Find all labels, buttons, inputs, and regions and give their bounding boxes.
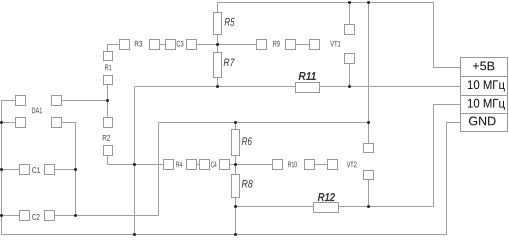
junction R2 stub at mid bus [133,163,136,166]
capacitor C2 pad left [20,211,30,221]
wire R9 to VT1 base [296,44,310,46]
svg-text:R8: R8 [241,179,253,191]
wire R8 top stub [235,165,237,175]
wire R5 R7 link [217,35,219,53]
svg-text:R7: R7 [223,57,235,69]
wire VT2 emitter stub [368,180,370,207]
svg-text:R1: R1 [105,63,112,72]
wire R11 row left [135,86,296,88]
junction C2 at pin3 vertical [74,214,77,217]
junction C1 at pin3 vertical [74,168,77,171]
wire R8 bottom to bottom rail [235,198,237,235]
wire R3 to C3 [160,44,166,46]
resistor R6 body [232,130,240,156]
capacitor C3 pad left [166,40,176,50]
svg-text:VT2: VT2 [347,160,357,169]
svg-text:C3: C3 [176,40,184,49]
transistor VT1 emitter pad [345,54,355,64]
junction VT1 emitter at R11 row [348,85,351,88]
resistor R12 body [314,203,339,213]
transistor VT1 base pad [310,40,320,50]
wire R4 to C4 [197,164,200,166]
wire top +5V rail [218,3,461,68]
IC DA1 pad 3 [52,118,62,128]
svg-text:+5В: +5В [472,59,495,73]
wire R2 bottom to R4 [108,156,164,165]
wire C4 to R10 [230,164,273,166]
capacitor C4 pad right [220,160,230,170]
resistor R8 body [232,175,240,198]
svg-text:R6: R6 [241,136,252,148]
wire DA1 pin2 [2,122,16,124]
wire DA1 pin3 down [62,123,76,216]
junction R6 R8 at R4 row [234,163,237,166]
wire C1 right [55,169,76,171]
resistor R7 body [214,53,222,78]
svg-text:C1: C1 [32,166,41,175]
svg-text:R12: R12 [318,192,335,204]
wire left bus vertical [134,87,136,235]
wire C2 right [55,215,159,217]
wire R6 top stub [235,123,237,130]
resistor R10 pad left [273,160,283,170]
resistor R4 pad left [164,160,174,170]
resistor R3 pad right [150,40,160,50]
wire R10 to VT2 base [315,164,328,166]
svg-text:VT1: VT1 [330,40,341,49]
resistor R9 pad right [286,40,296,50]
wire GND entry [2,123,461,235]
junction long vertical at y122 wire [367,121,370,124]
wire VT1 collector stub [349,3,351,25]
junction C2 at left bus [0,214,3,217]
resistor R10 pad right [305,160,315,170]
svg-text:DA1: DA1 [31,106,42,115]
svg-text:R4: R4 [176,160,183,169]
svg-text:C2: C2 [32,213,40,222]
connector block [461,58,508,132]
junction mid bus at bottom rail [133,233,136,236]
transistor VT2 base pad [328,160,338,170]
wire R12 row right [339,105,461,207]
wire R1 top to R3 row [108,45,120,52]
resistor R4 pad right [187,160,197,170]
junction R6 at y122 wire [234,121,237,124]
junction R1 R2 at DA1 pin4 [106,99,109,102]
resistor R3 pad left [120,40,130,50]
capacitor C4 pad left [200,160,210,170]
junction DA1 pin2 at left bus [0,121,3,124]
IC DA1 pad 1 [16,96,26,106]
junction R7 at R11 row [216,85,219,88]
wire C3 to R9 [197,44,257,46]
wire C2 left [2,215,20,217]
junction VT1 collector at +5V rail [348,1,351,4]
wire long vertical to VT2 collector [368,3,370,144]
junction R8 stub at R12 row [234,205,237,208]
wire R12 row left [236,206,314,208]
resistor R1 pad top [104,52,113,61]
resistor R9 pad left [257,40,267,50]
wire horizontal y122 [159,122,369,124]
capacitor C2 pad right [45,211,55,221]
transistor VT1 collector pad [345,25,355,35]
svg-text:GND: GND [468,114,496,128]
svg-text:C4: C4 [211,160,217,169]
junction R5 R7 at R3 row [216,43,219,46]
svg-text:R10: R10 [288,160,298,169]
resistor R2 pad top [104,118,113,128]
wire R6 bottom stub [235,156,237,165]
wire mid vertical x158 [158,123,160,216]
resistor R11 body [296,83,320,93]
svg-text:R5: R5 [224,17,235,29]
resistor R1 pad bottom [104,76,113,85]
wire R11 row right to 10MHz [320,86,461,88]
svg-text:R3: R3 [134,40,143,49]
capacitor C1 pad right [45,165,55,175]
svg-text:10 МГц: 10 МГц [467,78,505,92]
svg-text:R9: R9 [273,40,281,49]
junction R8 at bottom rail [234,233,237,236]
junction long vertical at +5V rail [367,1,370,4]
wire DA1 pin4 to R1 R2 [62,100,108,102]
junction VT2 emitter at R12 row [367,205,370,208]
capacitor C1 pad left [20,165,30,175]
wire DA1 left vertical [2,101,16,235]
resistor R5 body [214,13,222,35]
resistor R2 pad bottom [104,146,113,156]
wire R1 R2 link [107,85,109,118]
svg-text:10 МГц: 10 МГц [467,96,505,110]
IC DA1 pad 4 [52,96,62,106]
svg-text:R11: R11 [298,71,316,83]
svg-text:R2: R2 [102,134,110,143]
wire VT1 emitter stub [349,64,351,87]
capacitor C3 pad right [187,40,197,50]
transistor VT2 emitter pad [364,171,374,180]
wire R7 bottom stub [217,78,219,87]
IC DA1 pad 2 [16,118,26,128]
junction C1 at left bus [0,168,3,171]
transistor VT2 collector pad [364,144,374,153]
wire C1 left [2,169,20,171]
